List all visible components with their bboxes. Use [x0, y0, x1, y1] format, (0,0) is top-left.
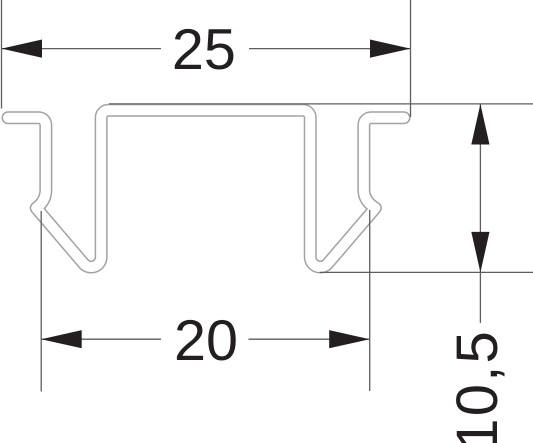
svg-text:10,5: 10,5: [445, 329, 510, 443]
svg-text:20: 20: [174, 309, 238, 373]
svg-text:25: 25: [172, 18, 236, 82]
